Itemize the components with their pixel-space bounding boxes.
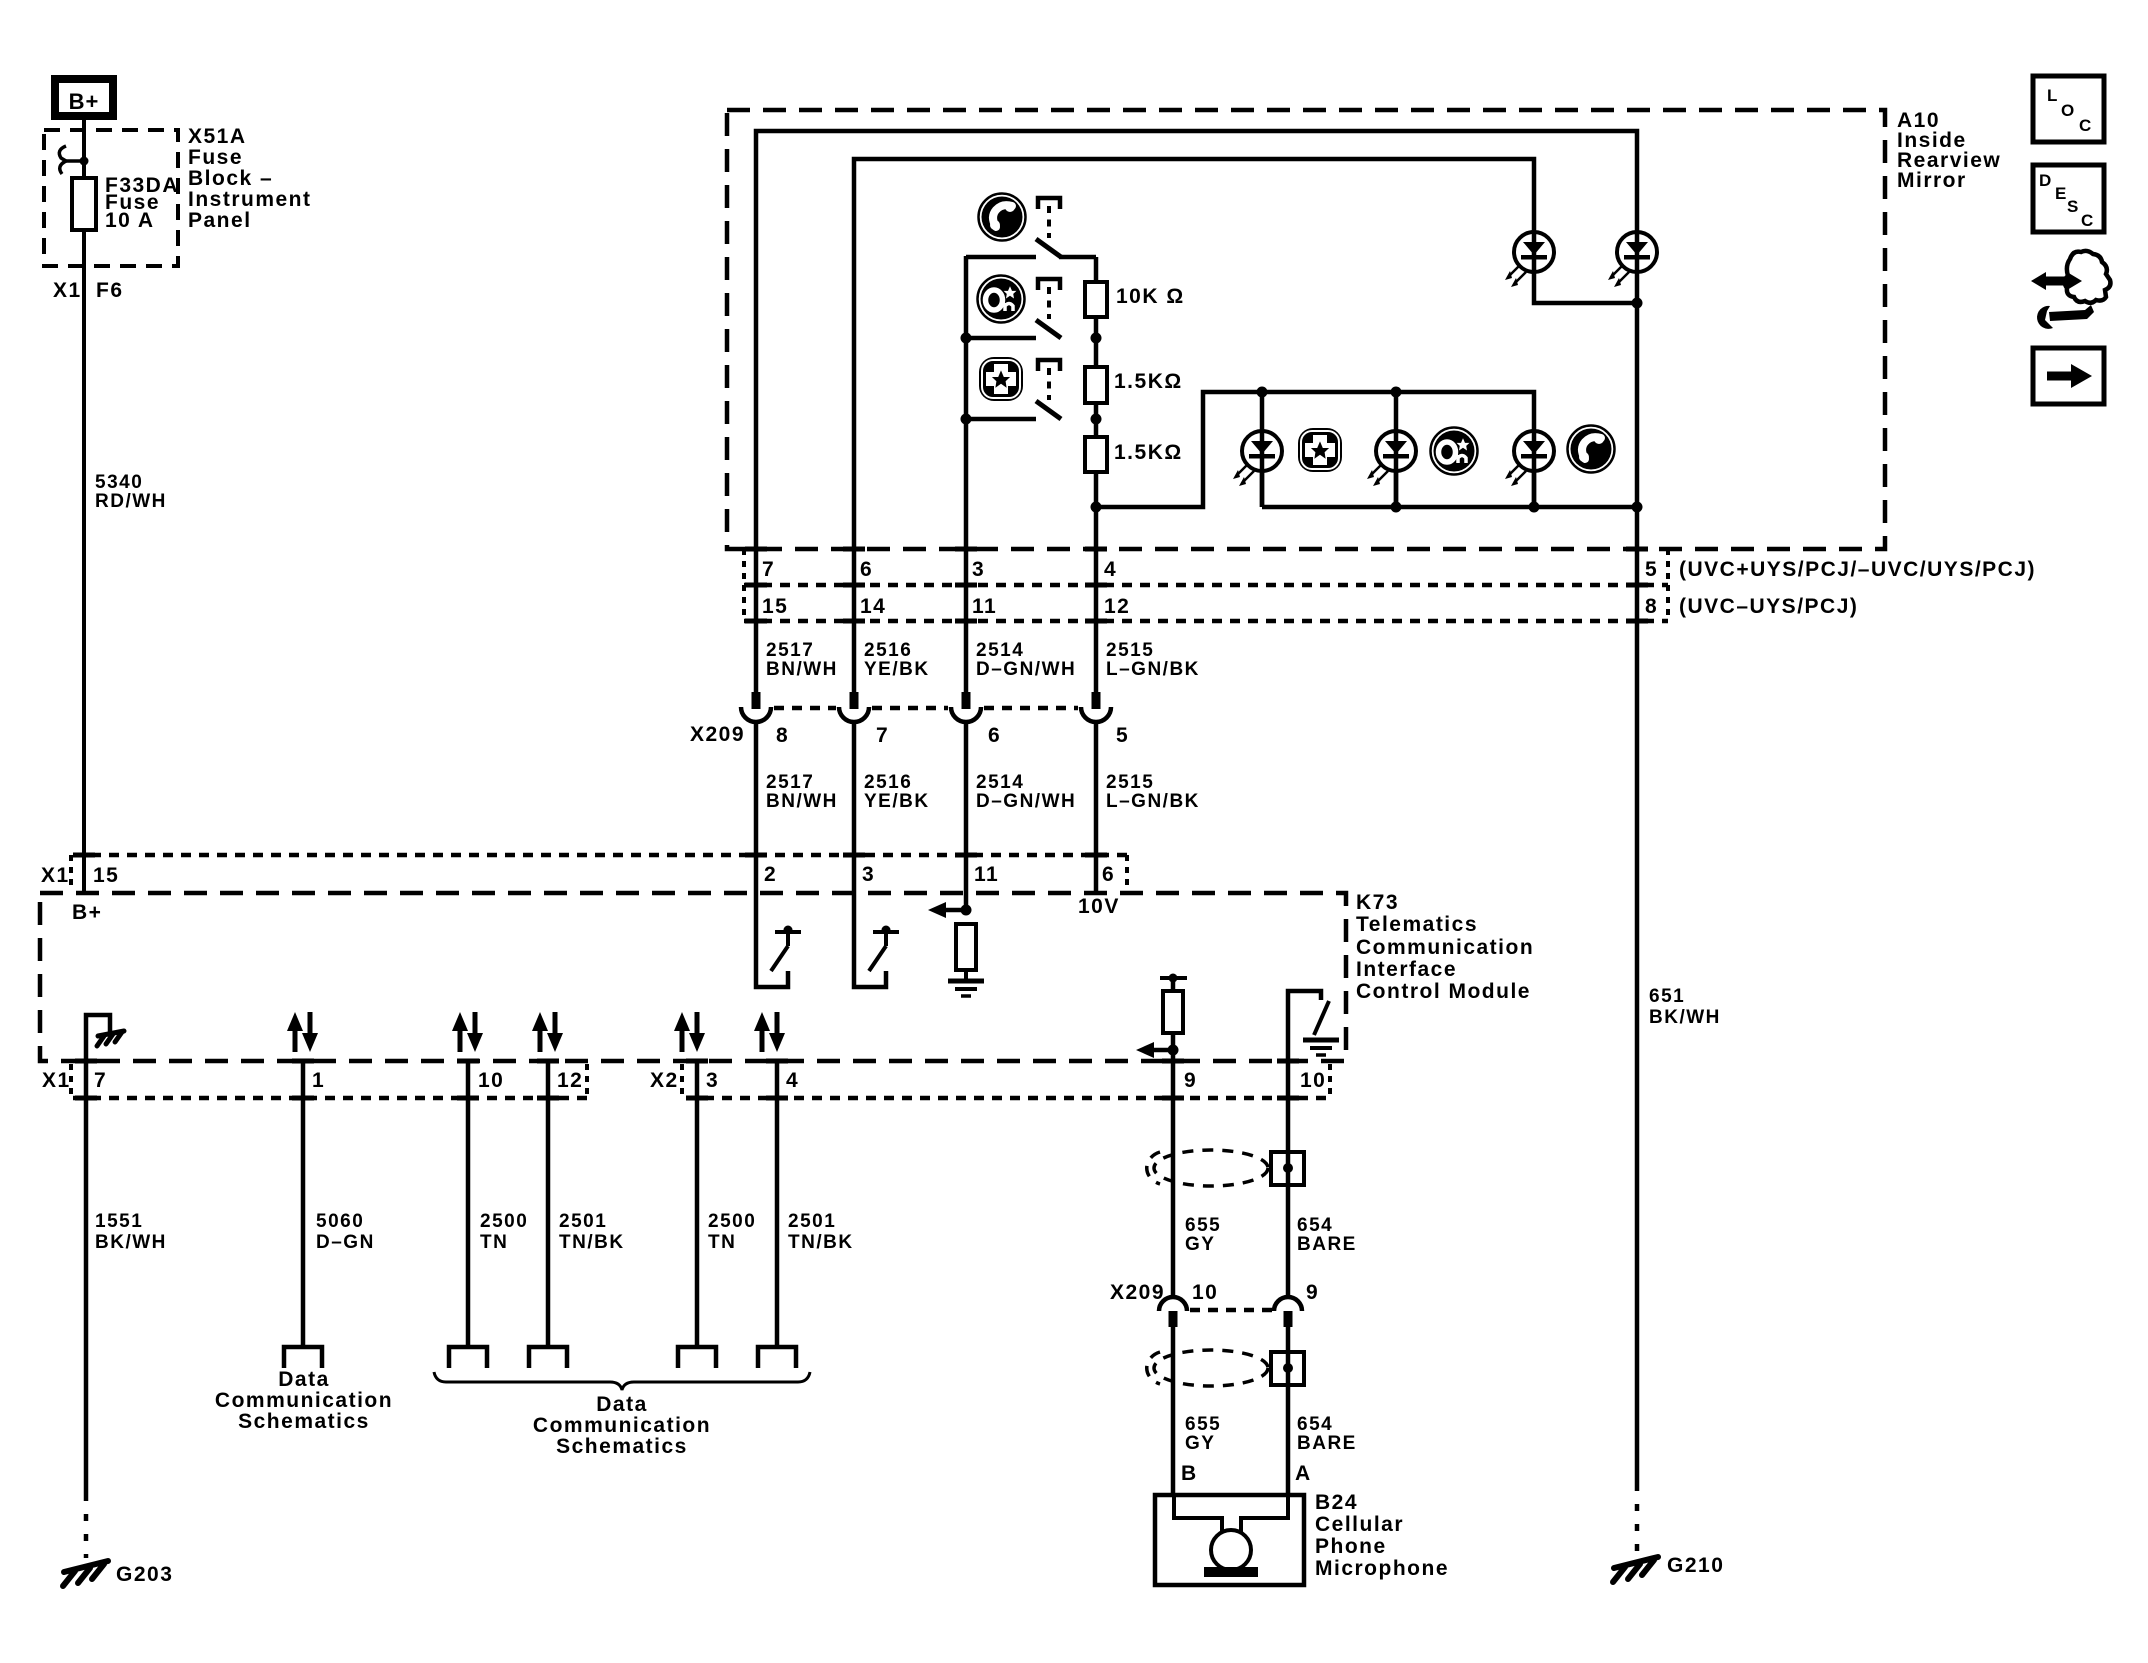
wire pin ticks — [73, 549, 1648, 1098]
serial data arrows pin 1 — [287, 1012, 318, 1052]
wire pin7 up and across top to right LED — [756, 131, 1637, 692]
resistor 10K — [1085, 282, 1185, 317]
svg-text:2501: 2501 — [559, 1211, 607, 1232]
svg-text:B+: B+ — [69, 89, 100, 114]
OnStar telltale icon — [1431, 428, 1478, 475]
wire 2501 TN/BK second — [777, 1061, 854, 1347]
svg-text:6: 6 — [1102, 863, 1115, 886]
LED indicator top right of pair — [1608, 232, 1657, 287]
label data communication schematics center — [533, 1393, 711, 1458]
terminal 2501 first — [529, 1347, 567, 1368]
connector X209 link dashes — [774, 706, 1078, 711]
wire 651 BK/WH label — [1649, 986, 1721, 1028]
wire fuse to X1 pin F6 — [82, 230, 86, 891]
svg-text:655: 655 — [1185, 1215, 1221, 1236]
svg-text:L–GN/BK: L–GN/BK — [1106, 791, 1200, 812]
svg-text:TN/BK: TN/BK — [788, 1232, 854, 1253]
svg-text:3: 3 — [972, 558, 985, 581]
svg-text:C: C — [2079, 116, 2091, 135]
serial data arrows pin 10x — [452, 1012, 483, 1052]
svg-text:L–GN/BK: L–GN/BK — [1106, 659, 1200, 680]
terminal 2501 second — [758, 1347, 796, 1368]
svg-text:BARE: BARE — [1297, 1433, 1357, 1454]
svg-text:8: 8 — [776, 724, 789, 747]
svg-text:YE/BK: YE/BK — [864, 791, 930, 812]
phone telltale icon — [1568, 426, 1615, 473]
svg-text:2514: 2514 — [976, 640, 1024, 661]
switch S2 OnStar (actuator) — [1038, 279, 1060, 319]
svg-text:G203: G203 — [116, 1563, 173, 1586]
label X51A Fuse Block Instrument Panel — [188, 125, 312, 232]
wire 2514 D-GN/WH upper label — [976, 640, 1076, 680]
svg-text:5: 5 — [1645, 558, 1658, 581]
svg-text:B: B — [1181, 1462, 1198, 1485]
svg-text:C: C — [2081, 211, 2093, 230]
connector X209 pin 5 cup — [1081, 692, 1111, 722]
svg-text:7: 7 — [876, 724, 889, 747]
icon forward arrow box — [2033, 348, 2104, 404]
wire 654 BARE lower — [1286, 1327, 1291, 1495]
internal ground trace pin 7 — [86, 1015, 110, 1061]
connector X209 pin 9 cup lower — [1274, 1297, 1302, 1327]
svg-text:GY: GY — [1185, 1433, 1215, 1454]
wire 2517 BN/WH lower label — [766, 772, 838, 812]
svg-text:7: 7 — [762, 558, 775, 581]
svg-text:11: 11 — [974, 863, 999, 886]
switch S3 emergency blade and contacts — [961, 401, 1102, 425]
svg-text:655: 655 — [1185, 1414, 1221, 1435]
serial data arrows X2 pin 4 — [754, 1012, 785, 1052]
wire 1551 BK/WH — [86, 1061, 167, 1558]
wire 651 inside mirror down — [1635, 272, 1640, 1484]
svg-text:TN/BK: TN/BK — [559, 1232, 625, 1253]
svg-text:1551: 1551 — [95, 1211, 143, 1232]
label data communication schematics left — [215, 1368, 393, 1433]
wire 2516 YE/BK upper label — [864, 640, 930, 680]
svg-text:Mirror: Mirror — [1897, 169, 1967, 192]
signal ground pin 11 — [948, 981, 984, 996]
svg-text:2500: 2500 — [480, 1211, 528, 1232]
wire 2515 L-GN/BK upper label — [1106, 640, 1200, 680]
svg-text:2515: 2515 — [1106, 772, 1154, 793]
wire LED A hang — [1260, 392, 1265, 507]
icon DESC box — [2033, 165, 2104, 232]
switch S1 phone blade and contacts — [966, 239, 1096, 257]
wire 655 GY lower label — [1185, 1414, 1221, 1454]
svg-text:GY: GY — [1185, 1234, 1215, 1255]
svg-text:1.5KΩ: 1.5KΩ — [1114, 370, 1183, 393]
svg-text:BN/WH: BN/WH — [766, 659, 838, 680]
svg-text:X1: X1 — [41, 864, 70, 887]
svg-text:5340: 5340 — [95, 472, 143, 493]
LED telltale right — [1505, 431, 1554, 486]
label F33DA Fuse 10 A — [105, 174, 179, 232]
wire 655 GY lower — [1171, 1327, 1176, 1495]
wire 655 GY upper — [1171, 1061, 1176, 1297]
svg-text:TN: TN — [708, 1232, 736, 1253]
svg-text:BK/WH: BK/WH — [1649, 1007, 1721, 1028]
svg-text:(UVC–UYS/PCJ): (UVC–UYS/PCJ) — [1679, 595, 1858, 618]
LED telltale middle — [1367, 431, 1416, 486]
wire 651 dashed tail — [1635, 1484, 1640, 1554]
label B24 Cellular Phone Microphone — [1315, 1491, 1449, 1580]
label K73 Telematics — [1356, 891, 1534, 1003]
connector X209 pin 7 cup — [839, 692, 869, 722]
svg-text:14: 14 — [860, 595, 886, 618]
wire LED B hang — [1394, 392, 1399, 507]
svg-text:E: E — [2055, 184, 2066, 203]
wire 2500 TN second — [697, 1061, 756, 1347]
svg-text:3: 3 — [862, 863, 875, 886]
svg-text:15: 15 — [762, 595, 788, 618]
svg-text:Control Module: Control Module — [1356, 980, 1531, 1003]
wire B+ to fuse — [82, 120, 86, 178]
svg-text:11: 11 — [972, 595, 997, 618]
earth ground pin 10 — [1303, 1040, 1339, 1055]
svg-text:Instrument: Instrument — [188, 188, 312, 211]
svg-text:15: 15 — [93, 864, 119, 887]
svg-text:X1: X1 — [53, 279, 82, 302]
resistor 1.5K lower — [1085, 437, 1183, 472]
svg-text:D–GN/WH: D–GN/WH — [976, 791, 1076, 812]
ground G210 — [1613, 1554, 1724, 1582]
svg-text:Data: Data — [596, 1393, 648, 1416]
fuse block X51A dashed box — [44, 130, 178, 266]
svg-text:A: A — [1295, 1462, 1312, 1485]
microphone B24 box — [1155, 1495, 1304, 1585]
svg-text:Data: Data — [278, 1368, 330, 1391]
wire 655 GY upper label — [1185, 1215, 1221, 1255]
svg-text:4: 4 — [786, 1069, 799, 1092]
fuse F33DA — [72, 178, 96, 230]
shield drain upper — [1271, 1152, 1304, 1185]
brace data wires — [434, 1372, 810, 1390]
wire 654 BARE lower label — [1297, 1414, 1357, 1454]
serial data arrows X2 pin 3 — [674, 1012, 705, 1052]
pull-down resistor pin 11 — [928, 902, 976, 979]
terminal 5060 — [284, 1347, 322, 1368]
svg-text:8: 8 — [1645, 595, 1658, 618]
wire 2516 YE/BK lower label — [864, 772, 930, 812]
svg-text:10: 10 — [1300, 1069, 1326, 1092]
svg-text:10: 10 — [478, 1069, 504, 1092]
svg-text:2517: 2517 — [766, 772, 814, 793]
svg-text:10V: 10V — [1078, 895, 1120, 918]
svg-text:Phone: Phone — [1315, 1535, 1387, 1558]
node lower rail C — [1529, 502, 1540, 513]
svg-text:6: 6 — [860, 558, 873, 581]
node lower rail B — [1391, 502, 1402, 513]
wire pin6 up and across to left LED — [854, 159, 1534, 692]
wire 2514 D-GN/WH lower label — [976, 772, 1076, 812]
wire LED bottoms to lower rail — [1262, 471, 1637, 507]
svg-text:Schematics: Schematics — [238, 1410, 370, 1433]
svg-text:6: 6 — [988, 724, 1001, 747]
wire riser to LED rail — [1096, 392, 1534, 507]
svg-text:3: 3 — [706, 1069, 719, 1092]
svg-text:B+: B+ — [72, 901, 102, 924]
svg-text:F6: F6 — [96, 279, 124, 302]
wire 2501 TN/BK first — [548, 1061, 625, 1347]
terminal 2500 second — [678, 1347, 716, 1368]
connector X209 pin 6 cup — [951, 692, 981, 722]
shield drain lower — [1271, 1352, 1304, 1385]
svg-text:7: 7 — [94, 1069, 107, 1092]
wire 2500 TN first — [468, 1061, 528, 1347]
svg-text:2515: 2515 — [1106, 640, 1154, 661]
module K73 dashed box — [40, 893, 1346, 1061]
emergency button icon — [979, 357, 1023, 401]
svg-text:Microphone: Microphone — [1315, 1557, 1449, 1580]
serial data arrows pin 12 — [532, 1012, 563, 1052]
svg-text:BN/WH: BN/WH — [766, 791, 838, 812]
svg-text:Block –: Block – — [188, 167, 273, 190]
icon wrench — [2037, 305, 2094, 329]
terminal 2500 first — [449, 1347, 487, 1368]
connector X209 lower link dashes — [1190, 1308, 1272, 1313]
phone button icon — [979, 194, 1026, 241]
svg-text:651: 651 — [1649, 986, 1685, 1007]
chassis ground symbol pin 7 — [97, 1031, 124, 1046]
svg-text:X209: X209 — [690, 723, 745, 746]
node LED pair — [1632, 298, 1643, 309]
wire 2517 BN/WH upper label — [766, 640, 838, 680]
wire 2515 L-GN/BK lower label — [1106, 772, 1200, 812]
wire left bus pin3 — [964, 256, 969, 692]
wire 5060 D-GN — [303, 1061, 375, 1347]
resistor 1.5K upper — [1085, 367, 1183, 403]
twisted pair upper — [1147, 1150, 1268, 1186]
svg-text:TN: TN — [480, 1232, 508, 1253]
svg-text:Cellular: Cellular — [1315, 1513, 1404, 1536]
svg-text:2500: 2500 — [708, 1211, 756, 1232]
node lower rail to 651 — [1632, 502, 1643, 513]
svg-text:D–GN/WH: D–GN/WH — [976, 659, 1076, 680]
svg-text:Telematics: Telematics — [1356, 913, 1478, 936]
svg-text:4: 4 — [1104, 558, 1117, 581]
wire 654 BARE upper label — [1297, 1215, 1357, 1255]
twisted pair lower — [1147, 1350, 1268, 1386]
svg-text:L: L — [2047, 86, 2057, 105]
LED indicator top left of pair — [1505, 232, 1554, 287]
switch input pin 3 — [854, 893, 899, 987]
ground G203 — [63, 1561, 173, 1586]
svg-text:YE/BK: YE/BK — [864, 659, 930, 680]
svg-text:G210: G210 — [1667, 1554, 1724, 1577]
svg-text:S: S — [2067, 197, 2078, 216]
svg-text:O: O — [2061, 101, 2074, 120]
svg-text:BARE: BARE — [1297, 1234, 1357, 1255]
connector X209 pin 8 cup — [741, 692, 771, 722]
svg-text:Panel: Panel — [188, 209, 252, 232]
connector strip A10 pins — [744, 549, 1668, 621]
icon data exchange arrow and connector blob — [2031, 251, 2110, 303]
connector strip K73 bottom — [71, 1064, 1330, 1098]
svg-text:X1: X1 — [42, 1069, 71, 1092]
svg-text:9: 9 — [1306, 1281, 1319, 1304]
bias resistor pin 9 — [1136, 974, 1187, 1062]
svg-text:B24: B24 — [1315, 1491, 1358, 1514]
svg-text:RD/WH: RD/WH — [95, 491, 167, 512]
node resistor chain bottom — [1091, 502, 1102, 513]
node rail B — [1391, 387, 1402, 398]
label A10 Inside Rearview Mirror — [1897, 109, 2001, 192]
connector strip K73 X1 top — [71, 855, 1127, 891]
svg-text:9: 9 — [1184, 1069, 1197, 1092]
svg-text:10: 10 — [1192, 1281, 1218, 1304]
svg-text:X2: X2 — [650, 1069, 679, 1092]
connector label X1 F6 — [53, 279, 124, 302]
svg-text:12: 12 — [557, 1069, 583, 1092]
svg-text:1.5KΩ: 1.5KΩ — [1114, 441, 1183, 464]
svg-text:K73: K73 — [1356, 891, 1399, 914]
icon LOC box — [2033, 76, 2104, 142]
svg-text:2516: 2516 — [864, 640, 912, 661]
svg-text:654: 654 — [1297, 1215, 1333, 1236]
svg-text:Communication: Communication — [533, 1414, 711, 1437]
svg-text:2517: 2517 — [766, 640, 814, 661]
svg-text:5: 5 — [1116, 724, 1129, 747]
svg-text:1: 1 — [312, 1069, 325, 1092]
svg-text:D: D — [2039, 171, 2051, 190]
svg-text:2501: 2501 — [788, 1211, 836, 1232]
OnStar button icon — [978, 276, 1025, 323]
fuse holder clip — [59, 146, 88, 174]
svg-text:X51A: X51A — [188, 125, 247, 148]
wire resistor chain pin4 — [1094, 257, 1099, 692]
power symbol B+ — [55, 79, 113, 116]
svg-text:2: 2 — [764, 863, 777, 886]
LED telltale left — [1233, 431, 1282, 486]
svg-text:Communication: Communication — [215, 1389, 393, 1412]
microphone element — [1174, 1495, 1288, 1577]
svg-text:654: 654 — [1297, 1414, 1333, 1435]
svg-text:12: 12 — [1104, 595, 1130, 618]
svg-text:10 A: 10 A — [105, 209, 155, 232]
svg-text:D–GN: D–GN — [316, 1232, 375, 1253]
svg-text:Fuse: Fuse — [188, 146, 243, 169]
switch S1 phone (actuator) — [1038, 198, 1060, 238]
svg-text:2516: 2516 — [864, 772, 912, 793]
svg-text:Schematics: Schematics — [556, 1435, 688, 1458]
svg-text:(UVC+UYS/PCJ/–UVC/UYS/PCJ): (UVC+UYS/PCJ/–UVC/UYS/PCJ) — [1679, 558, 2036, 581]
wires below X209 — [756, 722, 1096, 910]
switch to ground pin 10 — [1288, 991, 1329, 1061]
svg-text:10K Ω: 10K Ω — [1116, 285, 1185, 308]
wire 654 BARE upper — [1286, 1061, 1291, 1297]
switch S3 emergency (actuator) — [1038, 360, 1060, 400]
svg-text:Interface: Interface — [1356, 958, 1457, 981]
svg-text:2514: 2514 — [976, 772, 1024, 793]
connector X209 pin 10 cup lower — [1159, 1297, 1187, 1327]
svg-text:X209: X209 — [1110, 1281, 1165, 1304]
node rail A — [1257, 387, 1268, 398]
svg-text:Communication: Communication — [1356, 936, 1534, 959]
wire 5340 RD/WH label — [95, 472, 167, 512]
mirror module A10 dashed box — [727, 110, 1885, 549]
wire LED pair join — [1534, 272, 1637, 303]
svg-text:BK/WH: BK/WH — [95, 1232, 167, 1253]
switch S2 OnStar blade and contacts — [961, 320, 1102, 344]
svg-text:5060: 5060 — [316, 1211, 364, 1232]
emergency telltale icon — [1298, 428, 1342, 472]
switch input pin 2 — [756, 893, 801, 987]
